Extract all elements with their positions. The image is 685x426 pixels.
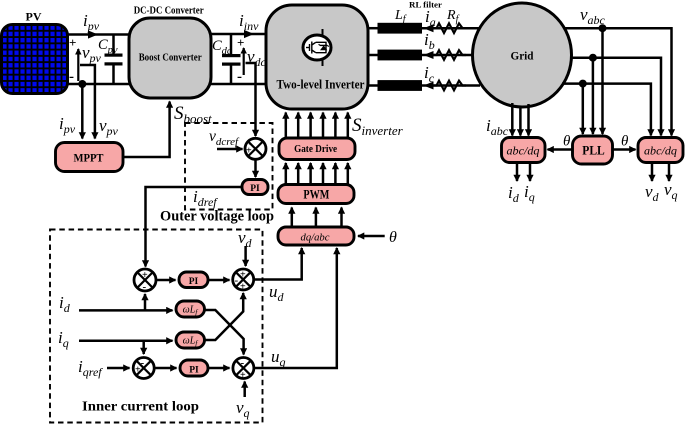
arrow v_q into summer S4 — [243, 382, 246, 398]
summer S2 — [233, 269, 254, 293]
svg-text:-: - — [141, 357, 145, 369]
i_q wire into wLf2 — [79, 339, 173, 342]
svg-text:+: + — [69, 35, 76, 50]
resistor R_f phase c — [433, 81, 466, 91]
svg-text:PI: PI — [250, 184, 260, 194]
current arrow i_inv on top wire — [244, 30, 254, 38]
svg-text:PLL: PLL — [582, 144, 605, 158]
svg-text:PV: PV — [26, 10, 42, 24]
svg-text:vq: vq — [236, 398, 250, 420]
svg-text:+: + — [240, 282, 246, 293]
v_dc measure arrow — [243, 48, 245, 75]
dq/abc to PWM arrows — [292, 208, 342, 227]
current arrow i_b — [424, 51, 434, 59]
PI block outer loop — [242, 180, 268, 195]
svg-text:id: id — [59, 293, 71, 315]
PLL input wire c — [582, 84, 585, 134]
svg-text:vdc: vdc — [247, 47, 267, 69]
inductor bar L_f phase b — [378, 50, 423, 61]
svg-text:iqref: iqref — [78, 357, 103, 379]
svg-text:PI: PI — [189, 366, 199, 376]
svg-text:abc/dq: abc/dq — [644, 146, 677, 158]
outer voltage loop dashed box — [185, 123, 273, 210]
summer S1 — [134, 269, 156, 293]
svg-text:+: + — [142, 270, 148, 281]
svg-text:-: - — [143, 281, 147, 293]
dq/abc block — [278, 227, 354, 245]
svg-text:θ: θ — [621, 134, 629, 150]
PLL block — [573, 136, 613, 164]
MPPT block — [56, 143, 124, 172]
arrow PLL to abc/dq right — [613, 148, 636, 151]
svg-text:θ: θ — [389, 229, 397, 246]
svg-text:vdcref: vdcref — [209, 128, 240, 148]
u_d wire to dq/abc — [254, 248, 302, 280]
svg-text:+: + — [237, 35, 244, 50]
phase a wire inverter to grid — [368, 27, 380, 30]
phase b wire inverter to grid — [368, 54, 380, 57]
arrow v_dcref into summer — [217, 148, 243, 151]
svg-text:id: id — [508, 183, 520, 205]
inductor bar L_f phase a — [378, 23, 423, 34]
svg-text:Rf: Rf — [446, 8, 460, 25]
svg-text:ia: ia — [425, 7, 436, 29]
svg-text:abc/dq: abc/dq — [507, 146, 540, 158]
wire PI1 to inner summer S1 — [146, 187, 243, 267]
wire top dc bus PV to boost — [66, 33, 129, 36]
current arrow i_a — [424, 24, 434, 32]
grid ellipse — [473, 3, 572, 107]
abc/dq right block — [638, 138, 683, 163]
abc/dq right output v_q — [668, 163, 671, 182]
svg-text:θ: θ — [563, 134, 571, 150]
svg-text:iq: iq — [58, 328, 69, 350]
wLf block 1 — [176, 301, 205, 317]
arrow S1 to PI2 — [156, 279, 176, 282]
svg-text:Lf: Lf — [394, 8, 407, 25]
v_abc phase c wire right with corner down — [562, 84, 651, 136]
resistor R_f phase a — [433, 23, 466, 33]
svg-text:DC-DC Converter: DC-DC Converter — [134, 5, 204, 17]
arrow PLL to abc/dq left — [548, 148, 573, 151]
wire bottom dc bus PV to boost — [66, 83, 129, 86]
svg-text:+: + — [240, 270, 246, 281]
abc/dq left output i_q — [529, 163, 532, 182]
svg-text:PWM: PWM — [303, 188, 329, 202]
PV panel — [2, 25, 68, 94]
wire bottom dc bus boost to inverter — [211, 83, 266, 86]
svg-text:vd: vd — [645, 182, 660, 204]
arrow PI2 to summer S2 — [208, 279, 230, 282]
arrow PI3 to summer S4 — [208, 367, 230, 370]
PLL input wire a — [601, 28, 604, 134]
i_q tap down to S3 — [142, 341, 145, 354]
abc/dq left output i_d — [516, 163, 519, 182]
PLL input wire b — [592, 58, 595, 134]
svg-text:uq: uq — [271, 347, 286, 369]
svg-text:-: - — [235, 275, 239, 287]
v_pv sense wire down to MPPT — [80, 65, 95, 139]
svg-text:Gate Drive: Gate Drive — [294, 144, 337, 155]
i_pv sense wire down to MPPT — [81, 84, 84, 139]
svg-text:ic: ic — [424, 63, 435, 85]
svg-text:Inner current loop: Inner current loop — [82, 400, 199, 415]
svg-text:+: + — [135, 365, 141, 376]
summer S3 — [133, 357, 154, 379]
svg-text:-: - — [241, 357, 245, 369]
arrow summer S0 to PI1 — [254, 159, 257, 177]
svg-text:ipv: ipv — [59, 114, 76, 136]
svg-text:-: - — [69, 69, 74, 85]
svg-text:Outer voltage loop: Outer voltage loop — [160, 209, 274, 225]
capacitor C_pv — [105, 35, 123, 85]
svg-text:Boost Converter: Boost Converter — [139, 53, 202, 64]
svg-text:vpv: vpv — [99, 116, 119, 138]
cross coupling wLf2 to S2 — [205, 293, 244, 340]
wire top dc bus boost to inverter — [211, 33, 266, 36]
svg-text:ud: ud — [269, 282, 285, 304]
svg-text:Cdc: Cdc — [212, 38, 232, 57]
theta arrow into dq/abc — [358, 235, 385, 238]
gate drive to inverter arrows — [286, 113, 348, 138]
summer S4 — [233, 357, 254, 381]
inner current loop dashed box — [50, 230, 263, 423]
abc/dq right output v_d — [651, 163, 654, 182]
summer S0 vdc — [245, 138, 266, 160]
svg-text:PI: PI — [189, 277, 199, 287]
svg-text:Sinverter: Sinverter — [352, 115, 404, 138]
junction dot on bottom bus — [78, 80, 86, 88]
wire MPPT to boost S_boost — [123, 102, 170, 158]
svg-text:+: + — [246, 146, 252, 157]
arrow i_qref into S3 — [107, 367, 130, 370]
inverter igbt circle symbol — [303, 29, 331, 66]
resistor R_f phase b — [433, 50, 466, 60]
v_abc phase b wire right with corner down — [570, 58, 661, 136]
svg-text:iq: iq — [524, 182, 535, 204]
svg-text:MPPT: MPPT — [74, 152, 104, 164]
svg-text:vq: vq — [664, 180, 678, 202]
svg-text:-: - — [237, 69, 242, 85]
svg-text:Cpv: Cpv — [98, 37, 118, 56]
PWM to gate drive arrows — [286, 163, 348, 184]
junction dot phase a — [599, 24, 607, 32]
grid bottom current wire 3 — [527, 104, 530, 136]
two-level inverter block — [266, 5, 368, 109]
svg-text:Grid: Grid — [511, 49, 534, 63]
boost converter block — [129, 18, 211, 98]
v_pv measure arrow — [77, 49, 79, 81]
arrow S3 to PI3 — [154, 367, 176, 370]
cross coupling wLf1 to S4 — [205, 310, 244, 355]
inductor bar L_f phase c — [378, 80, 423, 91]
PWM block — [278, 185, 354, 204]
i_d wire into wLf1 — [79, 309, 173, 312]
u_q wire to dq/abc — [254, 248, 337, 368]
phase c wire inverter to grid — [368, 84, 380, 87]
PI block inner d — [179, 272, 208, 288]
arrow v_d into summer S2 — [244, 246, 247, 266]
grid bottom current wire 2 — [519, 106, 522, 136]
junction dot phase b — [589, 54, 597, 62]
current arrow i_c — [424, 82, 434, 90]
svg-text:dq/abc: dq/abc — [301, 232, 330, 244]
v_abc phase a wire right with corner down — [564, 28, 672, 135]
grid bottom current wire 1 — [511, 103, 514, 136]
PI block inner q — [180, 360, 208, 376]
i_d tap up to S1 — [144, 294, 147, 310]
v_dc sense wire down to outer loop summer — [246, 63, 256, 136]
svg-text:+: + — [240, 370, 246, 381]
svg-text:ib: ib — [424, 30, 435, 52]
abc/dq left block — [502, 138, 546, 163]
svg-text:iinv: iinv — [239, 11, 259, 33]
wLf block 2 — [176, 332, 205, 348]
junction dot phase c — [579, 80, 587, 88]
current arrow i_pv on top wire — [88, 30, 98, 38]
svg-text:idref: idref — [193, 187, 218, 209]
svg-text:ipv: ipv — [83, 11, 100, 33]
gate drive block — [279, 138, 355, 160]
svg-text:Two-level Inverter: Two-level Inverter — [277, 78, 365, 92]
svg-text:iabc: iabc — [486, 116, 509, 138]
svg-text:vabc: vabc — [580, 5, 606, 27]
capacitor C_dc — [222, 34, 241, 84]
